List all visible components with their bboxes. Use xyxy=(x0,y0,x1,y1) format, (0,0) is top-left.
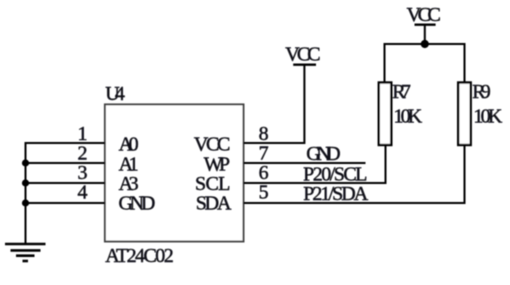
svg-text:5: 5 xyxy=(259,182,269,204)
svg-text:GND: GND xyxy=(306,143,340,165)
svg-text:10K: 10K xyxy=(473,106,502,128)
svg-text:VCC: VCC xyxy=(194,133,231,155)
svg-text:VCC: VCC xyxy=(407,4,441,26)
svg-text:R9: R9 xyxy=(472,81,491,103)
svg-text:P21/SDA: P21/SDA xyxy=(303,183,369,205)
svg-text:GND: GND xyxy=(119,193,156,215)
svg-text:SDA: SDA xyxy=(196,192,232,214)
svg-text:R7: R7 xyxy=(392,81,411,103)
svg-text:4: 4 xyxy=(78,182,88,204)
svg-text:AT24C02: AT24C02 xyxy=(105,245,173,267)
svg-text:A0: A0 xyxy=(119,133,139,155)
svg-text:10K: 10K xyxy=(394,106,423,128)
svg-text:U4: U4 xyxy=(105,83,125,105)
svg-text:A3: A3 xyxy=(119,173,139,195)
svg-text:VCC: VCC xyxy=(285,44,320,66)
